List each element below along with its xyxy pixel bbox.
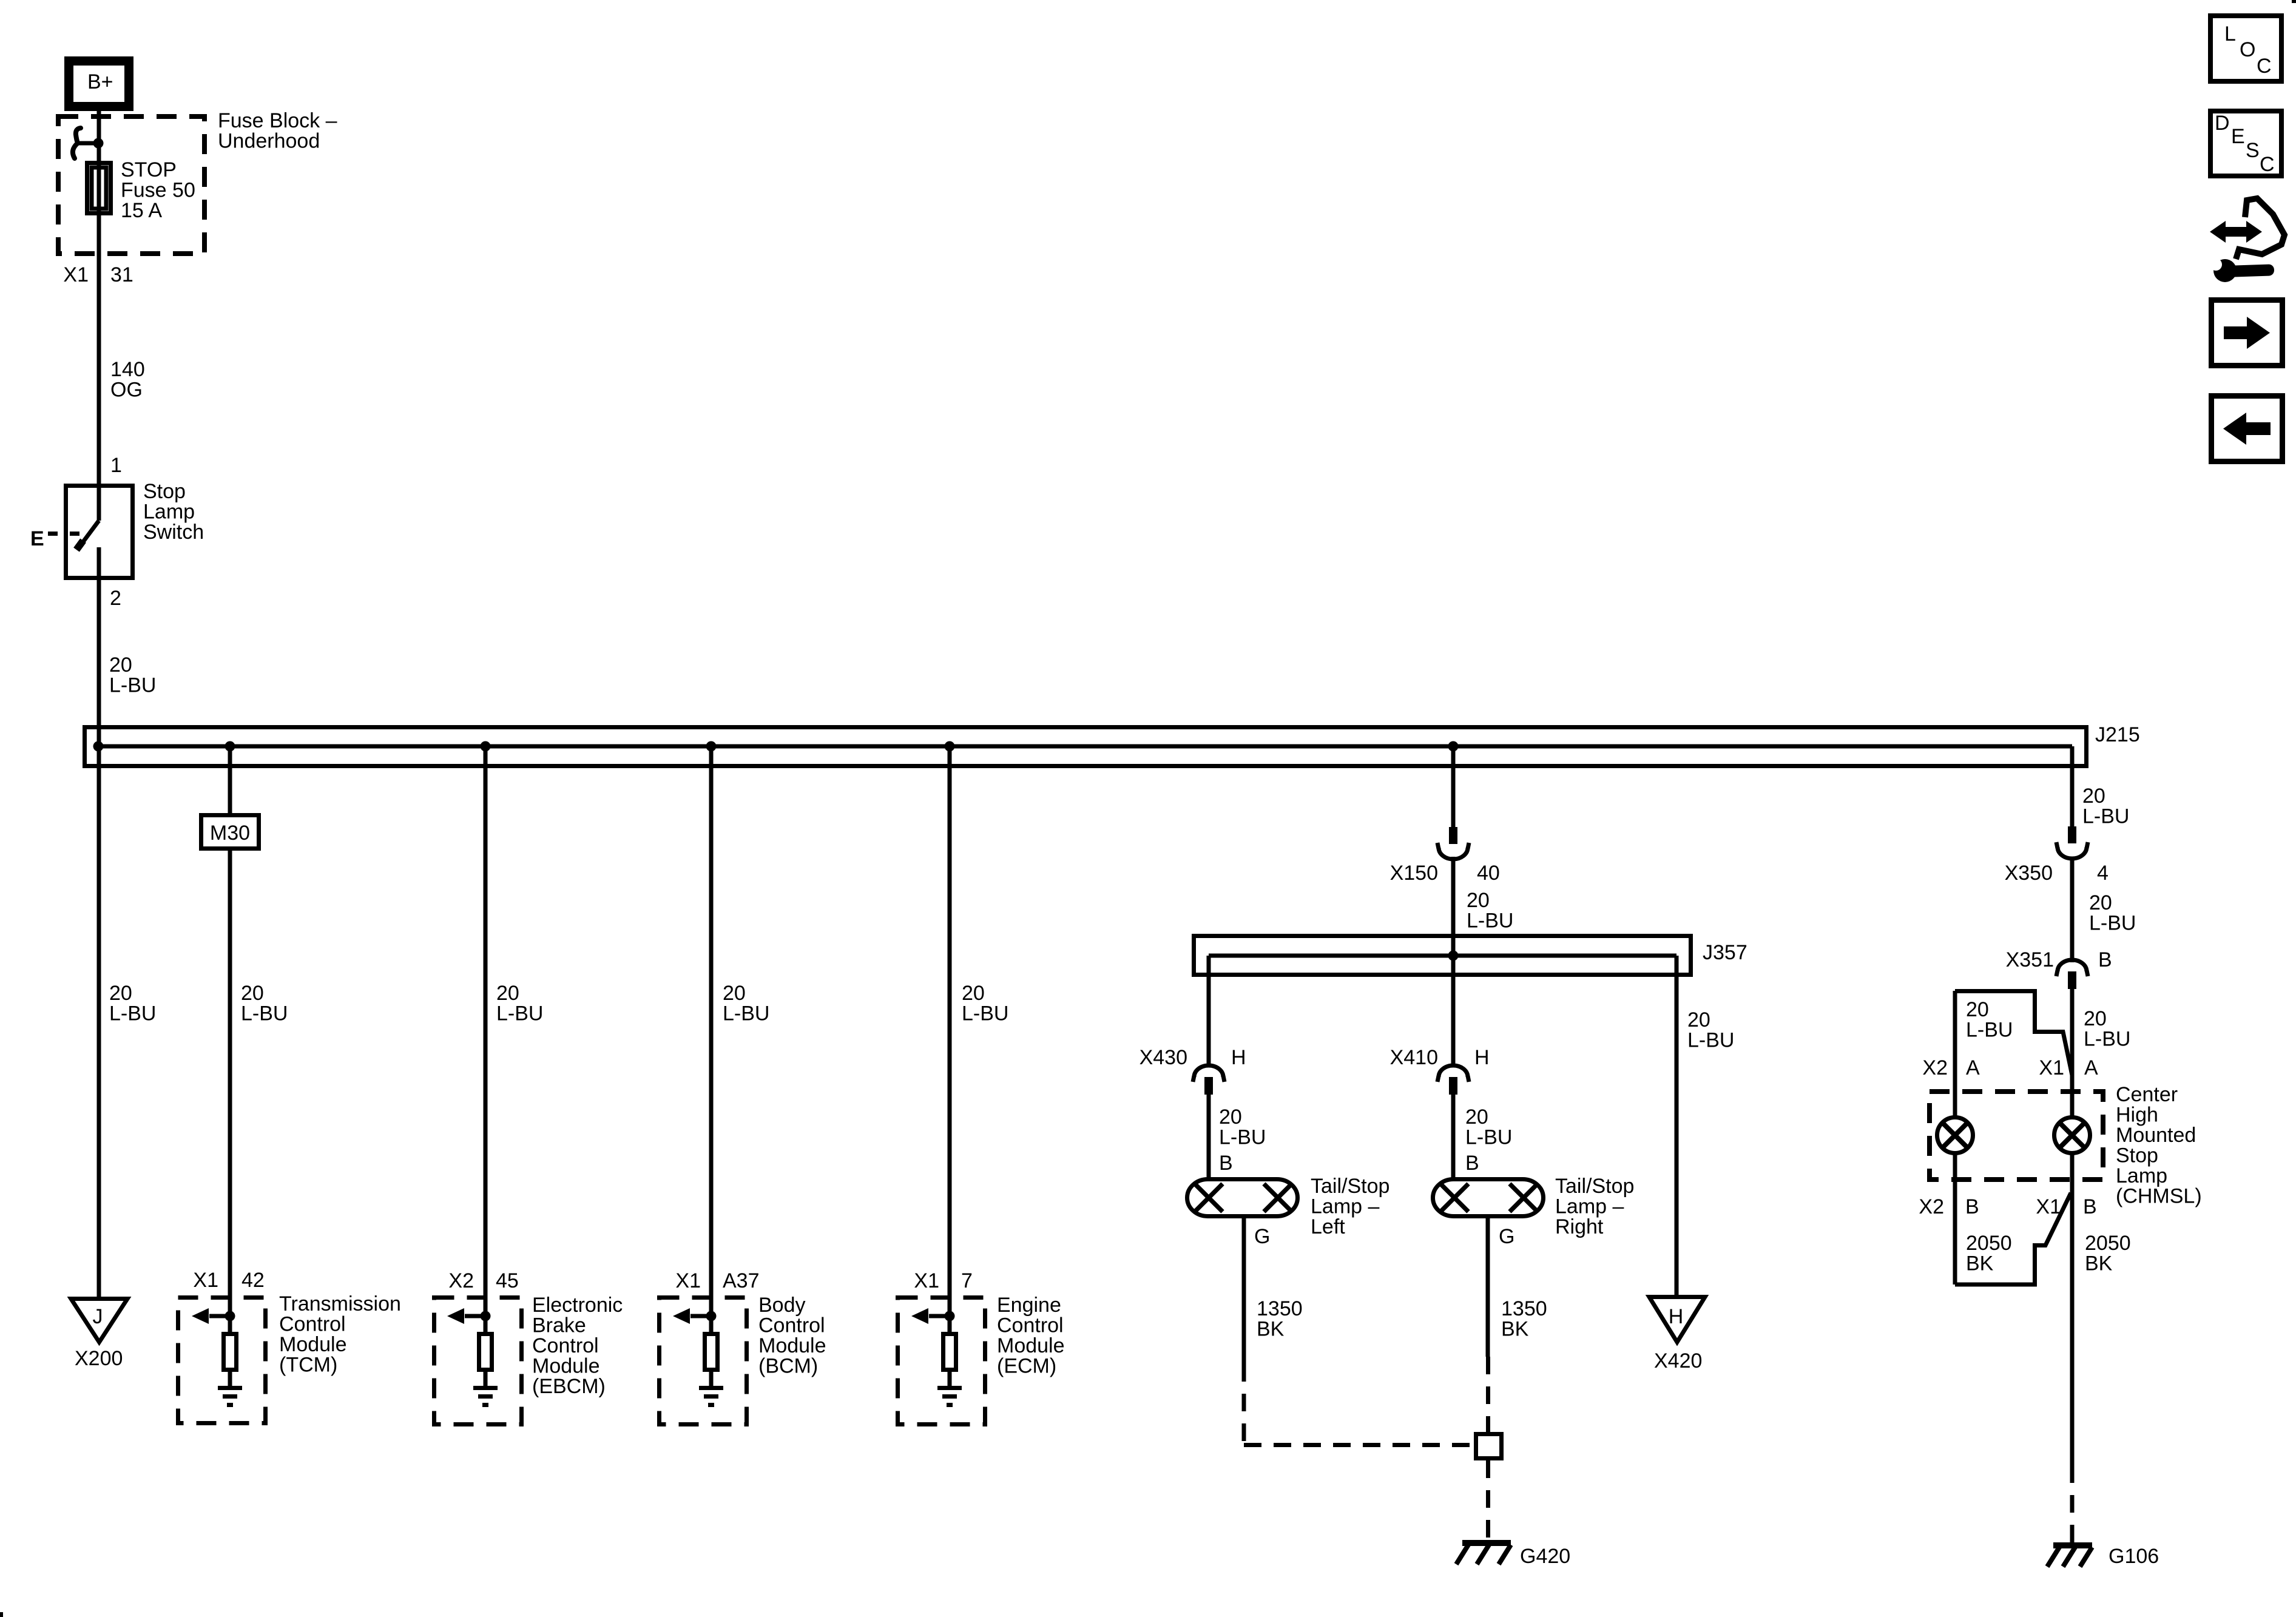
svg-text:20: 20 [2082, 785, 2105, 808]
svg-text:Body: Body [758, 1294, 806, 1317]
svg-text:B: B [2083, 1195, 2097, 1218]
svg-text:Switch: Switch [143, 521, 204, 544]
svg-text:H: H [1474, 1046, 1490, 1069]
svg-text:A: A [1966, 1056, 1980, 1079]
svg-text:X350: X350 [2005, 862, 2053, 885]
svg-text:X1: X1 [2039, 1056, 2064, 1079]
svg-text:L-BU: L-BU [1966, 1019, 2013, 1042]
svg-text:Lamp –: Lamp – [1555, 1195, 1624, 1218]
svg-text:A: A [2084, 1056, 2098, 1079]
svg-text:20: 20 [2089, 891, 2112, 914]
svg-text:140: 140 [110, 358, 145, 381]
svg-text:E: E [30, 527, 44, 550]
svg-text:(TCM): (TCM) [279, 1354, 337, 1377]
svg-text:X420: X420 [1654, 1349, 1702, 1372]
svg-text:Right: Right [1555, 1215, 1604, 1238]
svg-text:OG: OG [110, 379, 143, 402]
svg-text:Center: Center [2116, 1083, 2178, 1106]
svg-text:(BCM): (BCM) [758, 1355, 818, 1378]
svg-text:L-BU: L-BU [1467, 910, 1513, 933]
svg-text:M30: M30 [210, 822, 250, 845]
svg-text:Underhood: Underhood [218, 130, 320, 153]
svg-text:B: B [1219, 1152, 1233, 1175]
svg-text:B: B [1965, 1195, 1979, 1218]
svg-text:20: 20 [109, 653, 132, 677]
svg-text:C: C [2257, 55, 2272, 78]
svg-text:7: 7 [961, 1269, 973, 1292]
svg-text:J: J [93, 1305, 103, 1328]
svg-text:1: 1 [110, 454, 122, 477]
svg-text:G106: G106 [2109, 1545, 2159, 1568]
svg-text:G: G [1499, 1225, 1514, 1248]
svg-text:1350: 1350 [1501, 1297, 1547, 1320]
svg-text:BK: BK [2085, 1252, 2113, 1275]
svg-text:BK: BK [1501, 1318, 1529, 1341]
svg-text:L-BU: L-BU [962, 1002, 1008, 1025]
svg-text:X1: X1 [2036, 1195, 2061, 1218]
svg-text:20: 20 [1467, 889, 1490, 912]
svg-text:L-BU: L-BU [723, 1002, 769, 1025]
svg-text:X410: X410 [1390, 1046, 1438, 1069]
svg-text:20: 20 [1219, 1106, 1242, 1129]
svg-text:20: 20 [1687, 1008, 1710, 1031]
svg-text:Lamp –: Lamp – [1311, 1195, 1379, 1218]
svg-text:Brake: Brake [532, 1314, 586, 1337]
svg-text:X150: X150 [1390, 862, 1438, 885]
svg-text:X1: X1 [675, 1269, 701, 1292]
svg-text:Module: Module [758, 1334, 826, 1357]
svg-text:O: O [2240, 38, 2255, 61]
svg-text:X1: X1 [193, 1269, 218, 1292]
svg-text:Tail/Stop: Tail/Stop [1311, 1175, 1389, 1198]
svg-text:20: 20 [723, 982, 746, 1005]
svg-text:X200: X200 [75, 1347, 123, 1370]
svg-text:(EBCM): (EBCM) [532, 1375, 606, 1398]
svg-text:B+: B+ [87, 70, 113, 93]
svg-text:4: 4 [2097, 862, 2109, 885]
svg-text:D: D [2215, 112, 2230, 135]
svg-text:Transmission: Transmission [279, 1292, 401, 1315]
svg-text:L-BU: L-BU [241, 1002, 288, 1025]
svg-text:Control: Control [997, 1314, 1064, 1337]
svg-text:G: G [1254, 1225, 1270, 1248]
svg-text:Mounted: Mounted [2116, 1124, 2196, 1147]
svg-text:B: B [2098, 948, 2112, 971]
svg-text:20: 20 [496, 982, 519, 1005]
svg-text:E: E [2231, 125, 2245, 148]
svg-text:S: S [2246, 139, 2260, 162]
svg-text:20: 20 [109, 982, 132, 1005]
svg-text:Lamp: Lamp [143, 501, 195, 524]
svg-text:Control: Control [532, 1334, 599, 1357]
svg-text:(ECM): (ECM) [997, 1355, 1056, 1378]
svg-text:Module: Module [279, 1333, 347, 1356]
svg-text:Control: Control [279, 1313, 346, 1336]
svg-text:Engine: Engine [997, 1294, 1061, 1317]
svg-text:31: 31 [110, 263, 133, 286]
svg-text:X2: X2 [1922, 1056, 1948, 1079]
svg-text:2050: 2050 [1966, 1232, 2012, 1255]
svg-text:20: 20 [1966, 998, 1989, 1021]
svg-text:L-BU: L-BU [109, 1002, 156, 1025]
svg-text:20: 20 [962, 982, 985, 1005]
svg-text:High: High [2116, 1104, 2158, 1127]
svg-text:Fuse 50: Fuse 50 [121, 179, 195, 202]
svg-text:X1: X1 [63, 263, 89, 286]
svg-text:15 A: 15 A [121, 199, 162, 222]
svg-text:L-BU: L-BU [109, 674, 156, 697]
svg-text:L-BU: L-BU [1687, 1029, 1734, 1052]
svg-text:Left: Left [1311, 1215, 1345, 1238]
svg-text:20: 20 [2084, 1007, 2107, 1030]
svg-text:2: 2 [110, 587, 121, 610]
svg-text:Electronic: Electronic [532, 1294, 623, 1317]
svg-text:L-BU: L-BU [1465, 1126, 1512, 1149]
svg-text:H: H [1669, 1305, 1684, 1328]
svg-text:L-BU: L-BU [2089, 912, 2136, 935]
svg-text:BK: BK [1257, 1318, 1285, 1341]
svg-text:L-BU: L-BU [1219, 1126, 1266, 1149]
svg-text:J357: J357 [1703, 941, 1747, 964]
svg-text:42: 42 [241, 1269, 265, 1292]
svg-text:STOP: STOP [121, 158, 177, 181]
svg-text:Control: Control [758, 1314, 825, 1337]
svg-text:20: 20 [1465, 1106, 1488, 1129]
svg-text:X430: X430 [1140, 1046, 1187, 1069]
svg-text:X2: X2 [1919, 1195, 1944, 1218]
svg-text:A37: A37 [723, 1269, 760, 1292]
svg-text:X2: X2 [448, 1269, 474, 1292]
svg-text:Lamp: Lamp [2116, 1164, 2167, 1187]
svg-text:J215: J215 [2095, 723, 2140, 746]
svg-text:40: 40 [1477, 862, 1500, 885]
svg-text:L-BU: L-BU [2082, 805, 2129, 828]
svg-text:1350: 1350 [1257, 1297, 1303, 1320]
svg-text:Stop: Stop [2116, 1144, 2158, 1167]
svg-text:L: L [2224, 22, 2236, 46]
svg-text:Module: Module [997, 1334, 1065, 1357]
svg-text:C: C [2260, 153, 2275, 176]
svg-text:Fuse Block –: Fuse Block – [218, 109, 337, 132]
svg-text:20: 20 [241, 982, 264, 1005]
svg-text:B: B [1465, 1152, 1479, 1175]
svg-text:Tail/Stop: Tail/Stop [1555, 1175, 1634, 1198]
svg-text:L-BU: L-BU [496, 1002, 543, 1025]
svg-text:X351: X351 [2006, 948, 2054, 971]
svg-text:Module: Module [532, 1355, 600, 1378]
svg-text:G420: G420 [1520, 1545, 1570, 1568]
svg-text:L-BU: L-BU [2084, 1028, 2130, 1051]
svg-text:X1: X1 [914, 1269, 939, 1292]
svg-text:BK: BK [1966, 1252, 1994, 1275]
svg-text:H: H [1231, 1046, 1246, 1069]
svg-text:2050: 2050 [2085, 1232, 2131, 1255]
svg-text:Stop: Stop [143, 480, 186, 503]
svg-text:45: 45 [496, 1269, 519, 1292]
svg-text:(CHMSL): (CHMSL) [2116, 1185, 2202, 1208]
